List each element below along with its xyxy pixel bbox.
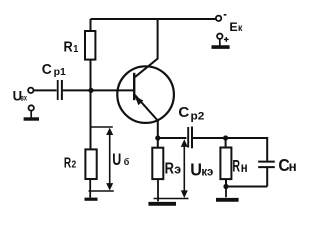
svg-text:U: U — [190, 160, 202, 180]
svg-text:э: э — [174, 162, 181, 176]
svg-text:E: E — [229, 20, 237, 34]
svg-text:2: 2 — [72, 159, 77, 170]
svg-text:U: U — [112, 151, 121, 169]
svg-text:н: н — [241, 160, 248, 175]
svg-text:1: 1 — [73, 44, 79, 56]
svg-text:C: C — [178, 104, 189, 121]
svg-text:R: R — [232, 156, 240, 175]
svg-text:р1: р1 — [54, 66, 66, 78]
svg-text:R: R — [64, 155, 71, 171]
svg-text:б: б — [124, 157, 130, 167]
svg-text:р2: р2 — [191, 111, 205, 123]
svg-text:C: C — [42, 62, 52, 78]
svg-text:R: R — [64, 38, 73, 55]
svg-text:вх: вх — [20, 95, 27, 103]
svg-text:н: н — [289, 159, 297, 174]
svg-text:R: R — [165, 160, 175, 177]
svg-text:к: к — [238, 22, 243, 34]
svg-text:кэ: кэ — [201, 165, 213, 178]
